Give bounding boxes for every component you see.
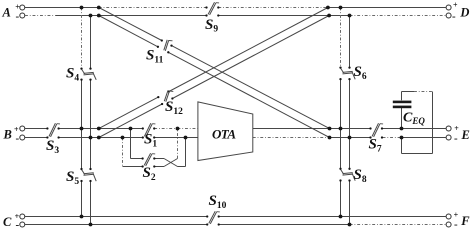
wire OTA -input line from S1: [154, 137, 198, 139]
wire OTA -output line to right verticals: [253, 137, 350, 139]
junction D+ diagonal end: [326, 6, 330, 10]
wire left vertical - rail (S5 to C-): [90, 181, 92, 225]
switch S1 (double-pole, B to OTA direct): [142, 123, 158, 149]
junction F- x right vertical: [348, 223, 352, 227]
wire right vertical - rail (S8 to F-): [349, 181, 351, 225]
wire C- line from terminal C to switch S10: [25, 224, 207, 226]
junction D- x right vertical: [348, 14, 352, 18]
junction cross output on OTA -input: [184, 136, 188, 140]
svg-text:B: B: [3, 127, 12, 141]
junction D- diagonal end: [327, 14, 331, 18]
svg-text:S5: S5: [66, 169, 79, 187]
wire B- line from terminal B to switch S3: [25, 137, 47, 139]
svg-text:-: -: [454, 132, 458, 144]
svg-text:-: -: [16, 133, 20, 145]
svg-text:S11: S11: [146, 48, 164, 66]
switch S11 (double-pole, on A-to-E diagonals): [146, 39, 173, 65]
junction B+ to S2 branch: [129, 127, 133, 131]
wire D- line to terminal D: [350, 15, 447, 17]
junction D+ x right vertical: [339, 6, 343, 10]
wire OTA +input line from S1: [154, 128, 198, 130]
svg-text:C: C: [3, 215, 12, 229]
wire E+ line from S7 to terminal E: [382, 128, 447, 130]
wire A+/D+ line from switch S9 to top-right junction: [218, 7, 340, 9]
wire OTA +output line to right verticals: [253, 128, 341, 130]
wire cross bottom output up to OTA -input: [178, 138, 186, 167]
junction B+ diagonal start: [97, 127, 101, 131]
wire B+ line from terminal B to switch S3: [25, 128, 47, 130]
svg-text:CEQ: CEQ: [403, 111, 425, 127]
wire branch from B- down to S2: [123, 138, 143, 167]
wire left vertical - rail (S4 to S5): [90, 80, 92, 169]
wire A- line from terminal A to switch S9: [25, 15, 207, 17]
terminal E (differential output +/-): [446, 124, 470, 144]
wire C+/F+ line from S10 to terminal F: [219, 216, 447, 218]
wire branch from B+ down to S2: [131, 129, 143, 159]
wire right vertical + rail (S8 to F+): [340, 181, 342, 217]
wire B- line from S3 to switch S1: [59, 137, 143, 139]
switch S10 (double-pole, on C-F lines): [206, 193, 227, 226]
svg-text:-: -: [454, 219, 458, 231]
junction A- diagonal start: [97, 14, 101, 18]
terminal A (differential input +/-): [2, 2, 25, 22]
wire right vertical - rail (D- to S6): [349, 16, 351, 68]
junction E+ x right vertical: [339, 127, 343, 131]
wire D+ line to terminal D: [341, 7, 447, 9]
svg-text:S6: S6: [354, 64, 367, 82]
wire C-/F- line from S10 to terminal F: [219, 224, 447, 226]
wire E- line from junction to switch S7: [350, 137, 372, 139]
junction B- x left vertical: [89, 136, 93, 140]
switch S9 (double-pole, on A-D lines): [205, 2, 219, 34]
junction A- x left vertical: [89, 14, 93, 18]
wire diagonal B to D (through S12), right part: [169, 8, 329, 99]
wire left vertical + rail (A+ to S4): [81, 8, 83, 69]
switch S12 (double-pole, on B-to-D diagonals): [157, 90, 183, 116]
svg-text:-: -: [16, 219, 20, 231]
svg-text:-: -: [452, 11, 456, 23]
junction diagonal end on E- line: [328, 136, 332, 140]
svg-text:S4: S4: [66, 66, 79, 84]
wire diagonal A to E (through S11), right part: [168, 46, 329, 138]
svg-text:S2: S2: [143, 165, 156, 183]
wire A-/D- line from switch S9 to top-right junction: [218, 15, 349, 17]
wire S2 top output to cross: [154, 158, 164, 160]
wire right vertical + rail (S6 to S8): [340, 79, 342, 169]
svg-text:S3: S3: [46, 138, 59, 156]
wire left vertical + rail (S4 to S5): [81, 80, 83, 169]
capacitor C_EQ (plates): [393, 101, 412, 109]
wire right vertical - rail (S6 to S8): [349, 79, 351, 169]
svg-text:F: F: [460, 214, 470, 228]
svg-text:A: A: [2, 5, 11, 19]
svg-text:-: -: [16, 11, 20, 23]
wire diagonal B+ to D+ (through S12), left part: [99, 97, 162, 137]
wire B+ line from S3 to switch S1: [59, 128, 143, 130]
switch S8 (double-pole, on right vertical rails): [339, 167, 366, 185]
junction C- x left vertical: [89, 223, 93, 227]
svg-text:S1: S1: [144, 132, 157, 150]
junction E- to C_EQ: [400, 136, 404, 140]
wire C_EQ loop (top/right/bottom of feedback rectangle): [402, 92, 433, 154]
wire A+ line from terminal A to switch S9: [25, 7, 207, 9]
svg-text:E: E: [461, 128, 470, 142]
wire cross top output up to OTA +input: [177, 129, 179, 159]
wire right vertical + rail (D+ to S6): [340, 8, 342, 68]
terminal B (differential input +/-): [3, 125, 25, 145]
wire E- line from S7 to terminal E: [383, 137, 447, 139]
switch S4 (double-pole, on left vertical rails): [66, 66, 96, 84]
svg-text:OTA: OTA: [212, 127, 236, 142]
junction E+ to C_EQ: [400, 127, 404, 131]
junction diagonal end on E+ line: [328, 127, 332, 131]
svg-text:S8: S8: [354, 167, 367, 185]
junction A+ diagonal start: [97, 6, 101, 10]
switch S5 (double-pole, on left vertical rails): [66, 168, 96, 187]
label C_EQ: [403, 111, 425, 127]
junction B- to S2 branch: [121, 136, 125, 140]
junction B+ x left vertical: [80, 127, 84, 131]
wire polarity cross (swap): [164, 159, 178, 167]
svg-text:+: +: [453, 0, 458, 9]
wire left vertical + rail (S5 to C+): [81, 181, 83, 217]
junction F+ x right vertical: [339, 215, 343, 219]
junction C+ x left vertical: [80, 215, 84, 219]
svg-text:S7: S7: [369, 137, 382, 155]
junction E- x right vertical: [348, 136, 352, 140]
terminal C (differential input +/-): [3, 212, 25, 231]
svg-text:S10: S10: [209, 193, 227, 211]
wire left vertical - rail (A- to S4): [90, 16, 92, 69]
switch S6 (double-pole, on right vertical rails): [339, 64, 366, 82]
terminal F (differential output +/-): [446, 211, 470, 231]
wire E+ line from junction to switch S7: [341, 128, 371, 130]
svg-text:S9: S9: [205, 17, 218, 35]
switch S7 (double-pole, on E lines): [369, 123, 384, 154]
svg-text:S12: S12: [165, 99, 183, 117]
terminal D (differential output +/-): [446, 0, 469, 22]
wire S2 bottom output to cross: [154, 166, 164, 168]
switch S3 (double-pole, on B lines): [46, 123, 60, 156]
op-amp OTA (transconductance amplifier U1): [198, 102, 253, 161]
switch S2 (double-pole, B to OTA crossed): [141, 153, 155, 183]
wire diagonal A+ to E+ (through S11), left part: [99, 8, 162, 47]
svg-text:D: D: [459, 5, 469, 19]
wire C+ line from terminal C to switch S10: [25, 216, 207, 218]
junction A+ x left vertical: [80, 6, 84, 10]
junction cross output on OTA +input: [176, 127, 180, 131]
junction B- diagonal start: [97, 136, 101, 140]
